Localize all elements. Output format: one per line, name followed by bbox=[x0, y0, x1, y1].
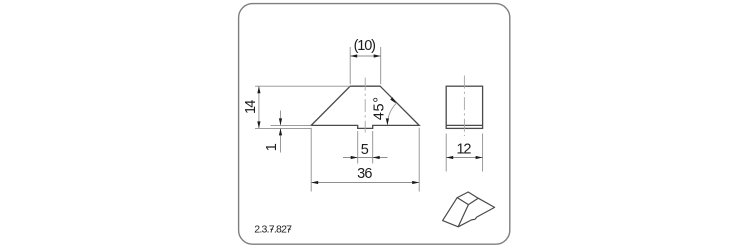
dim 1: dimension line with outside arrows bbox=[280, 111, 282, 126]
dim 36: dimension line bbox=[311, 182, 419, 184]
svg-text:1: 1 bbox=[264, 143, 280, 151]
dim 45 deg: arc bbox=[387, 104, 396, 126]
isometric view: top face bbox=[457, 192, 478, 205]
dim 12: extension lines bbox=[445, 134, 447, 172]
dim 14: dimension line bbox=[258, 86, 260, 128]
dim 5: extension lines bbox=[357, 131, 359, 164]
svg-text:(10): (10) bbox=[354, 38, 376, 54]
dim (10): extension lines bbox=[349, 47, 351, 84]
svg-text:5: 5 bbox=[361, 142, 369, 158]
side view: bottom face edge line bbox=[446, 124, 482, 126]
crossbars on the two 7 glyphs bbox=[270, 228, 273, 230]
dim 12: dimension line bbox=[446, 157, 482, 159]
front view: wedge outline bbox=[311, 86, 419, 128]
svg-text:12: 12 bbox=[457, 142, 472, 158]
dim 14: extension lines bbox=[255, 85, 350, 87]
front view vertical centerline bbox=[364, 78, 366, 133]
side view vertical centerline bbox=[463, 76, 465, 137]
drawing border frame bbox=[239, 4, 510, 245]
isometric view: left face + front edge bbox=[443, 198, 469, 227]
svg-text:36: 36 bbox=[357, 166, 372, 182]
svg-text:2.3.7.827: 2.3.7.827 bbox=[254, 224, 292, 236]
svg-text:14: 14 bbox=[243, 100, 259, 114]
isometric view: right face with rib notch bbox=[458, 198, 494, 227]
dim 1: extension line at bottom face bbox=[271, 124, 312, 126]
dim (10): dimension line bbox=[350, 55, 381, 57]
dim 5: dimension line with outside arrows bbox=[343, 157, 388, 159]
dim 36: extension lines bbox=[310, 128, 312, 192]
svg-text:45°: 45° bbox=[371, 97, 387, 120]
side view: rectangle bbox=[446, 86, 482, 128]
